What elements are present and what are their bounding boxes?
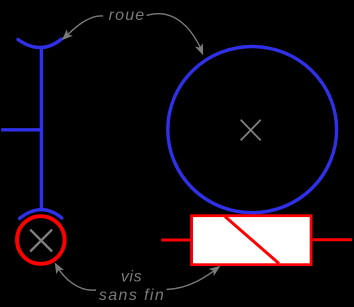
- svg-text:roue: roue: [109, 7, 146, 24]
- svg-text:vis: vis: [121, 268, 142, 285]
- svg-text:sans fin: sans fin: [99, 287, 165, 304]
